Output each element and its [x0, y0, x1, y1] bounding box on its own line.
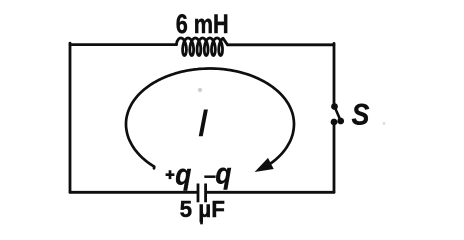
svg-text:6 mH: 6 mH: [176, 9, 229, 39]
capacitor C1 left plate: [197, 184, 200, 203]
wire bottom-right segment: [207, 191, 334, 194]
wire right side bottom segment: [333, 123, 336, 193]
stray smudge right: [383, 122, 386, 125]
switch S lever arm: [335, 107, 341, 121]
svg-text:I: I: [198, 103, 209, 145]
switch S top contact dot: [331, 103, 338, 110]
capacitor C1 right plate: [204, 184, 207, 203]
current arrow head: [255, 158, 274, 172]
wire left side: [69, 43, 72, 192]
minus sign of -q: [204, 175, 215, 178]
plus sign of +q: [166, 170, 175, 179]
inductor L1 coil 6 mH: [176, 38, 227, 56]
wire top-right segment: [228, 43, 335, 46]
wire right side top segment: [333, 43, 336, 104]
svg-text:S: S: [352, 98, 370, 131]
svg-text:q: q: [175, 157, 191, 191]
switch S lever end dot: [337, 118, 344, 125]
switch S bottom contact dot: [331, 119, 338, 126]
current loop arc: [126, 69, 294, 169]
label S switch: [352, 98, 370, 131]
label q negative charge: [215, 156, 231, 190]
svg-text:q: q: [215, 156, 231, 190]
wire bottom-left segment: [70, 191, 197, 194]
wire top-left segment: [70, 43, 177, 46]
stray smudge left: [198, 88, 202, 92]
label q positive charge: [175, 157, 191, 191]
